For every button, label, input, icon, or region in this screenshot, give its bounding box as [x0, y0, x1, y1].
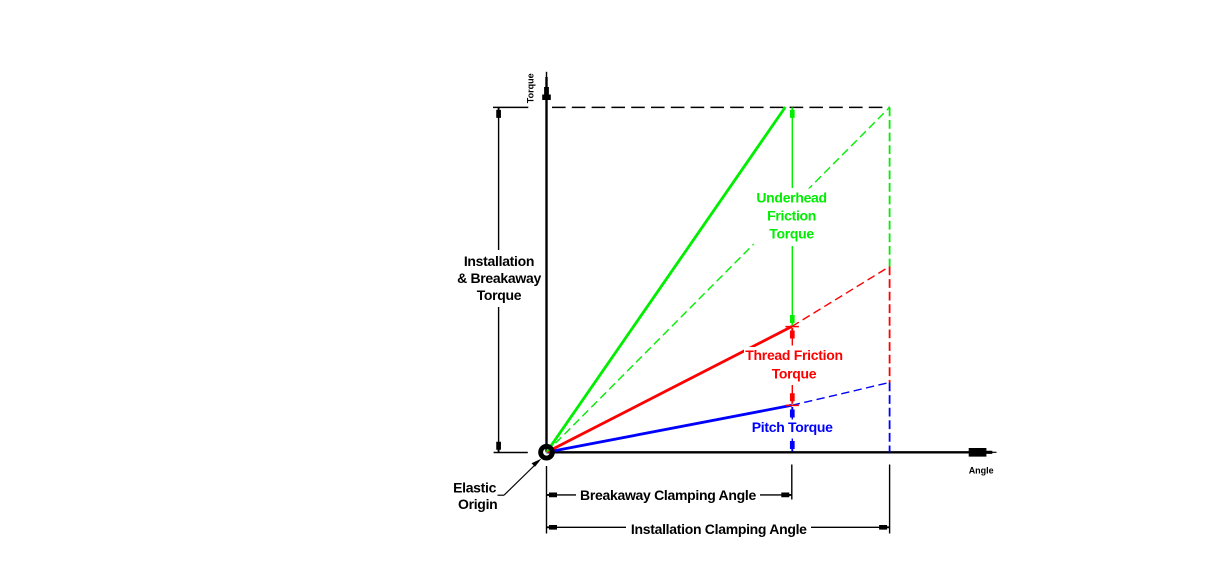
breakaway clamping angle dimension	[547, 493, 792, 498]
extension line below installation angle	[889, 465, 891, 534]
svg-text:Torque: Torque	[525, 73, 535, 103]
svg-text:Underhead: Underhead	[756, 190, 826, 206]
origin ring (elastic origin marker)	[541, 446, 553, 458]
right vertical dashed: blue segment	[889, 383, 891, 453]
svg-text:Angle: Angle	[969, 466, 994, 476]
label: Installation Clamping Angle	[627, 520, 810, 538]
blue label: Pitch Torque	[749, 420, 835, 439]
green dimension (Underhead Friction Torque)	[790, 107, 795, 325]
svg-text:Installation: Installation	[464, 253, 534, 269]
right vertical dashed: red segment	[889, 267, 891, 383]
red dimension (Thread Friction Torque)	[790, 328, 795, 404]
y-axis	[542, 72, 551, 453]
elastic origin leader	[498, 459, 542, 496]
green solid line (total torque, breakaway)	[547, 107, 786, 452]
svg-text:Installation Clamping Angle: Installation Clamping Angle	[631, 521, 807, 537]
svg-text:Torque: Torque	[769, 225, 814, 241]
svg-text:Torque: Torque	[477, 287, 522, 303]
blue solid line (pitch torque)	[547, 405, 792, 452]
left label: Installation & Breakaway Torque	[455, 252, 543, 307]
extension line below breakaway angle	[791, 465, 793, 500]
svg-text:Torque: Torque	[772, 365, 817, 381]
svg-text:Pitch Torque: Pitch Torque	[752, 419, 833, 435]
blue dashed line	[792, 383, 890, 406]
right vertical dashed: green segment	[889, 107, 891, 266]
left dimension line (Installation & Breakaway Torque)	[496, 107, 501, 452]
bottom tick at x-axis level (left dimension)	[494, 452, 528, 454]
svg-text:Thread Friction: Thread Friction	[745, 347, 842, 363]
red dashed line	[792, 267, 890, 327]
svg-text:Friction: Friction	[767, 207, 816, 223]
top torque level: dashed line	[552, 106, 890, 108]
blue dimension (Pitch Torque)	[790, 407, 795, 452]
red tick at green/red boundary	[785, 326, 799, 328]
x-axis	[547, 448, 997, 457]
red tick at red/blue boundary	[786, 404, 799, 406]
svg-text:Origin: Origin	[458, 496, 497, 512]
green label: Underhead Friction Torque	[754, 189, 830, 245]
label: Breakaway Clamping Angle	[577, 487, 759, 505]
red solid line (thread friction + pitch)	[547, 327, 792, 453]
extension line below origin	[546, 466, 548, 534]
top torque level: solid tick	[493, 106, 528, 108]
svg-text:Breakaway Clamping Angle: Breakaway Clamping Angle	[580, 487, 756, 503]
svg-text:Elastic: Elastic	[453, 479, 497, 495]
installation clamping angle dimension	[547, 525, 890, 530]
green dashed line (total torque, installation)	[547, 107, 890, 452]
label: Elastic Origin	[453, 479, 497, 512]
red label: Thread Friction Torque	[744, 347, 844, 384]
svg-text:& Breakaway: & Breakaway	[457, 270, 541, 286]
